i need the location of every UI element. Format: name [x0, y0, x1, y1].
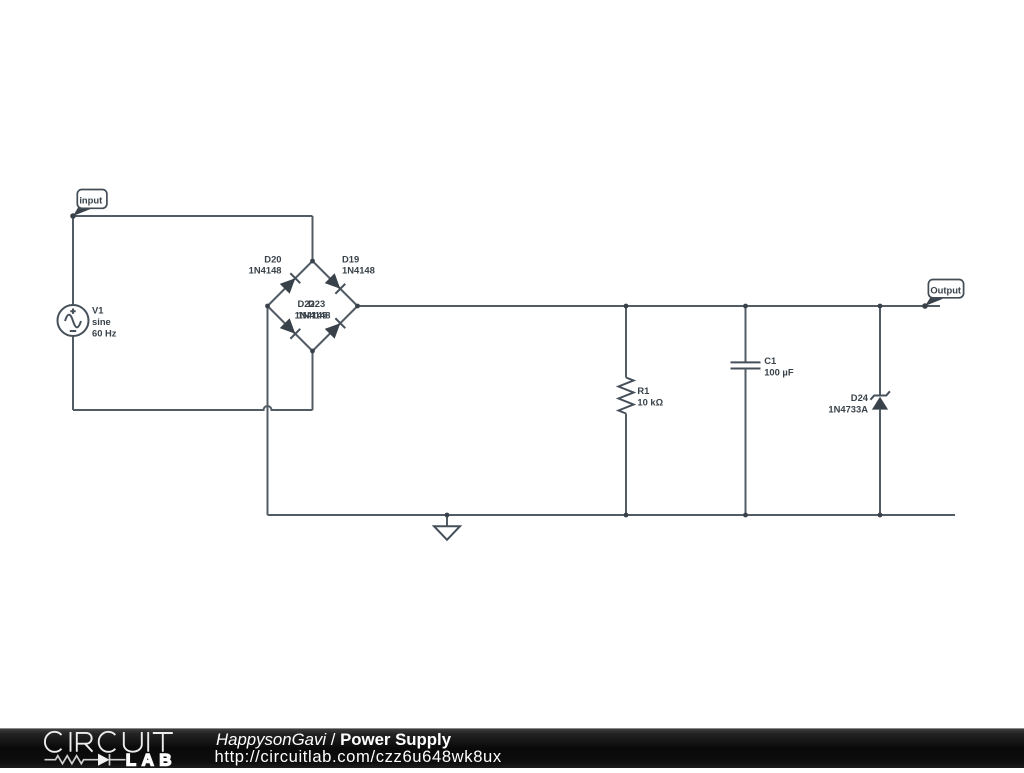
ground [434, 515, 460, 540]
wire left V1 top lead [72, 216, 74, 305]
wire vertical into bridge top vertex [312, 216, 314, 261]
svg-text:sine: sine [92, 316, 111, 327]
svg-text:C1: C1 [764, 355, 776, 366]
net flag Output [925, 280, 964, 307]
wire bottom ground rail [268, 514, 956, 516]
resistor R1 [619, 306, 634, 515]
CircuitLab logo diode triangle [98, 754, 110, 766]
svg-text:1N4148: 1N4148 [249, 264, 282, 275]
wire up to bridge bottom vertex [312, 351, 314, 410]
diode D22 (bridge bottom-left) [280, 318, 301, 339]
net flag input [73, 190, 107, 217]
svg-text:1N4148: 1N4148 [298, 310, 331, 321]
svg-text:D23: D23 [308, 298, 325, 309]
junction node bridge right [355, 304, 360, 309]
svg-text:10 kΩ: 10 kΩ [637, 397, 663, 408]
wire bridge left vertex down to ground rail [267, 306, 269, 515]
junction node bridge top [310, 259, 315, 264]
junction node C1 top [743, 304, 748, 309]
diode D23 (bridge bottom-right) [325, 318, 346, 339]
zener diode D24 [871, 306, 890, 515]
svg-text:V1: V1 [92, 304, 103, 315]
junction node input corner [70, 213, 76, 219]
capacitor C1 [731, 306, 761, 515]
svg-text:LAB: LAB [126, 751, 177, 769]
svg-text:D20: D20 [264, 253, 281, 264]
voltage source V1 [58, 305, 89, 336]
svg-text:R1: R1 [637, 385, 649, 396]
svg-text:D19: D19 [342, 253, 359, 264]
wire bridge bottom-right edge [313, 306, 358, 351]
junction node bridge bottom [310, 349, 315, 354]
svg-text:input: input [79, 194, 102, 205]
svg-text:D24: D24 [851, 392, 869, 403]
wire bridge bottom-left edge [268, 306, 313, 351]
svg-text:60 Hz: 60 Hz [92, 327, 117, 338]
wire top horizontal from input to bridge [73, 215, 313, 217]
diode D19 (bridge top-right) [325, 273, 346, 294]
svg-text:1N4148: 1N4148 [342, 264, 375, 275]
junction node D24 top [878, 304, 883, 309]
svg-text:100 µF: 100 µF [764, 367, 794, 378]
svg-text:http://circuitlab.com/czz6u648: http://circuitlab.com/czz6u648wk8ux [215, 747, 502, 766]
wire mid output rail [358, 305, 941, 307]
junction node D24 bottom [878, 513, 883, 518]
svg-text:Output: Output [930, 284, 961, 295]
CircuitLab logo resistor-diode line [45, 754, 126, 766]
junction node R1 bottom [624, 513, 629, 518]
wire bridge top-left edge [268, 261, 313, 306]
diode D20 (bridge top-left) [280, 273, 301, 294]
junction node output flag [922, 303, 928, 309]
junction node bridge left [265, 304, 270, 309]
svg-text:1N4733A: 1N4733A [828, 404, 868, 415]
CircuitLab logo CIRCUIT wordmark [45, 732, 173, 752]
junction node C1 bottom [743, 513, 748, 518]
junction node R1 top [624, 304, 629, 309]
junction node ground [445, 513, 450, 518]
wire left V1 bottom lead [72, 336, 74, 410]
footer bar [0, 728, 1024, 729]
wire bridge top-right edge [313, 261, 358, 306]
wire V1 bottom horizontal with hop over vertical wire [73, 406, 313, 410]
